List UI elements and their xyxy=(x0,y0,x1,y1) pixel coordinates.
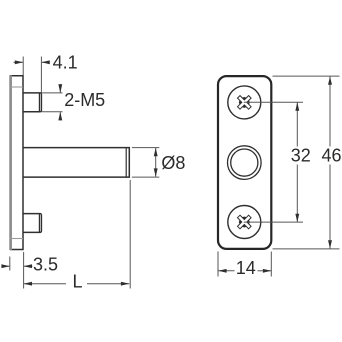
bottom screw cross north shading wedge xyxy=(242,217,246,220)
bottom screw cross south shading wedge xyxy=(242,225,246,228)
leader line from bottom screw centre xyxy=(244,221,303,223)
dimension 4.1 right arrow xyxy=(42,61,48,63)
dimension L extension line at shaft end xyxy=(129,180,131,289)
top screw cross east shading wedge xyxy=(247,100,250,104)
dimension 2-M5 top arrow xyxy=(59,84,61,92)
dimension 46 bottom extension line xyxy=(273,248,340,250)
dimension 32 line lower segment and arrow xyxy=(296,165,298,222)
spindle shaft (side view) xyxy=(23,148,129,178)
dimension 46 top extension line xyxy=(273,75,340,77)
svg-text:4.1: 4.1 xyxy=(53,52,78,72)
dimension 3.5 extension line at plate left face xyxy=(9,257,11,271)
dimension diameter-8 line xyxy=(155,148,157,177)
dimension 14 right extension line xyxy=(270,252,272,277)
dimension diameter-8 top extension line xyxy=(132,147,159,149)
svg-text:Ø8: Ø8 xyxy=(161,153,185,173)
dimension 14 left extension line xyxy=(217,252,219,277)
svg-text:3.5: 3.5 xyxy=(33,255,58,275)
shaft end chamfer line xyxy=(125,148,127,178)
dimension diameter-8 up arrow xyxy=(154,148,158,156)
upper M5 threaded boss (side view) xyxy=(23,93,41,112)
top screw cross west shading wedge xyxy=(239,100,242,104)
top screw cross south shading wedge xyxy=(242,105,246,108)
top screw cross north shading wedge xyxy=(242,97,246,100)
plate bottom chamfer line xyxy=(10,238,23,240)
svg-text:14: 14 xyxy=(236,258,256,278)
dimension 4.1 extension line at plate right face xyxy=(22,57,24,76)
bottom screw head circle xyxy=(228,206,261,239)
flange plate (side view) outline xyxy=(10,76,23,250)
dimension L line left segment and arrow xyxy=(24,283,66,285)
bottom screw phillips cross recess xyxy=(238,215,252,229)
centre spindle hole inner circle xyxy=(231,149,258,176)
shared extension line at plate right face for 3.5 and L xyxy=(23,252,25,289)
dimension diameter-8 bottom extension line xyxy=(132,176,159,178)
lower M5 threaded boss (side view) xyxy=(23,214,41,233)
dimension 4.1 left arrow xyxy=(14,61,23,63)
upper boss end chamfer line xyxy=(38,93,40,111)
leader line from top screw centre xyxy=(244,101,303,103)
svg-text:46: 46 xyxy=(322,146,342,166)
svg-text:32: 32 xyxy=(291,146,311,166)
bottom screw cross west shading wedge xyxy=(239,220,242,224)
striker plate (front view) rounded rectangle outline xyxy=(218,76,271,249)
dimension 3.5 left arrow xyxy=(2,265,9,267)
dimension 2-M5 top extension line xyxy=(41,92,62,94)
svg-text:L: L xyxy=(73,271,83,291)
dimension 14 line left segment and arrow xyxy=(218,270,234,272)
dimension 14 line right segment and arrow xyxy=(258,270,272,272)
centre spindle hole outer circle xyxy=(228,146,262,180)
bottom screw cross east shading wedge xyxy=(247,220,250,224)
dimension 2-M5 bottom extension line xyxy=(41,111,62,113)
dimension L line right segment and arrow xyxy=(87,283,129,285)
dimension 2-M5 bottom arrow xyxy=(59,112,61,120)
dimension 4.1 extension line at boss right face xyxy=(40,57,42,93)
flange plate mounting face (thick left edge) xyxy=(9,75,12,250)
dimension 32 line upper segment and arrow xyxy=(296,103,298,147)
dimension 46 line upper segment and arrow xyxy=(329,76,331,146)
dimension diameter-8 down arrow xyxy=(154,168,158,176)
lower boss end chamfer line xyxy=(38,214,40,232)
dimension 46 line lower segment and arrow xyxy=(329,165,331,249)
top screw head circle xyxy=(228,86,261,119)
svg-text:2-M5: 2-M5 xyxy=(64,90,105,110)
dimension 3.5 right arrow xyxy=(24,265,33,267)
plate top chamfer line xyxy=(10,86,23,88)
top screw phillips cross recess xyxy=(238,96,252,110)
